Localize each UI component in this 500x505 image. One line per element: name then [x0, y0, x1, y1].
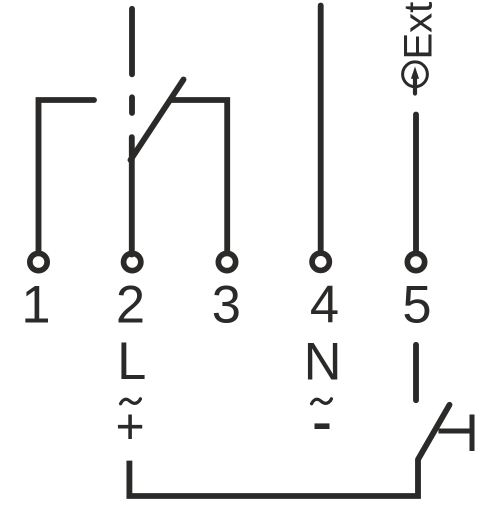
svg-text:4: 4 — [310, 276, 339, 335]
svg-text:3: 3 — [212, 276, 241, 335]
svg-text:5: 5 — [402, 276, 431, 335]
svg-text:1: 1 — [21, 276, 50, 335]
svg-text:N: N — [304, 333, 342, 392]
svg-text:2: 2 — [116, 276, 145, 335]
svg-text:+: + — [115, 399, 144, 455]
svg-text:L: L — [117, 332, 146, 391]
svg-text:Ext: Ext — [397, 2, 441, 60]
